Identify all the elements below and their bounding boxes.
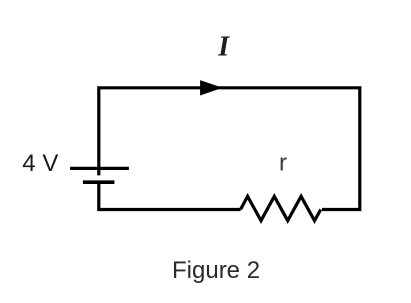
wire: top horizontal from left corner to right corner [99,88,360,210]
svg-text:Figure 2: Figure 2 [172,257,260,284]
battery V1 top plate (long, positive) [70,167,129,170]
resistor r (zigzag) [241,196,321,220]
arrow: current direction arrowhead on top wire [201,81,221,95]
svg-text:r: r [279,149,287,176]
svg-text:I: I [217,31,230,62]
svg-text:4 V: 4 V [22,150,58,177]
battery V1 bottom plate (short, negative) [83,180,115,184]
wire: left vertical below battery down to bottom-left corner, then bottom wire to resistor [99,184,241,210]
